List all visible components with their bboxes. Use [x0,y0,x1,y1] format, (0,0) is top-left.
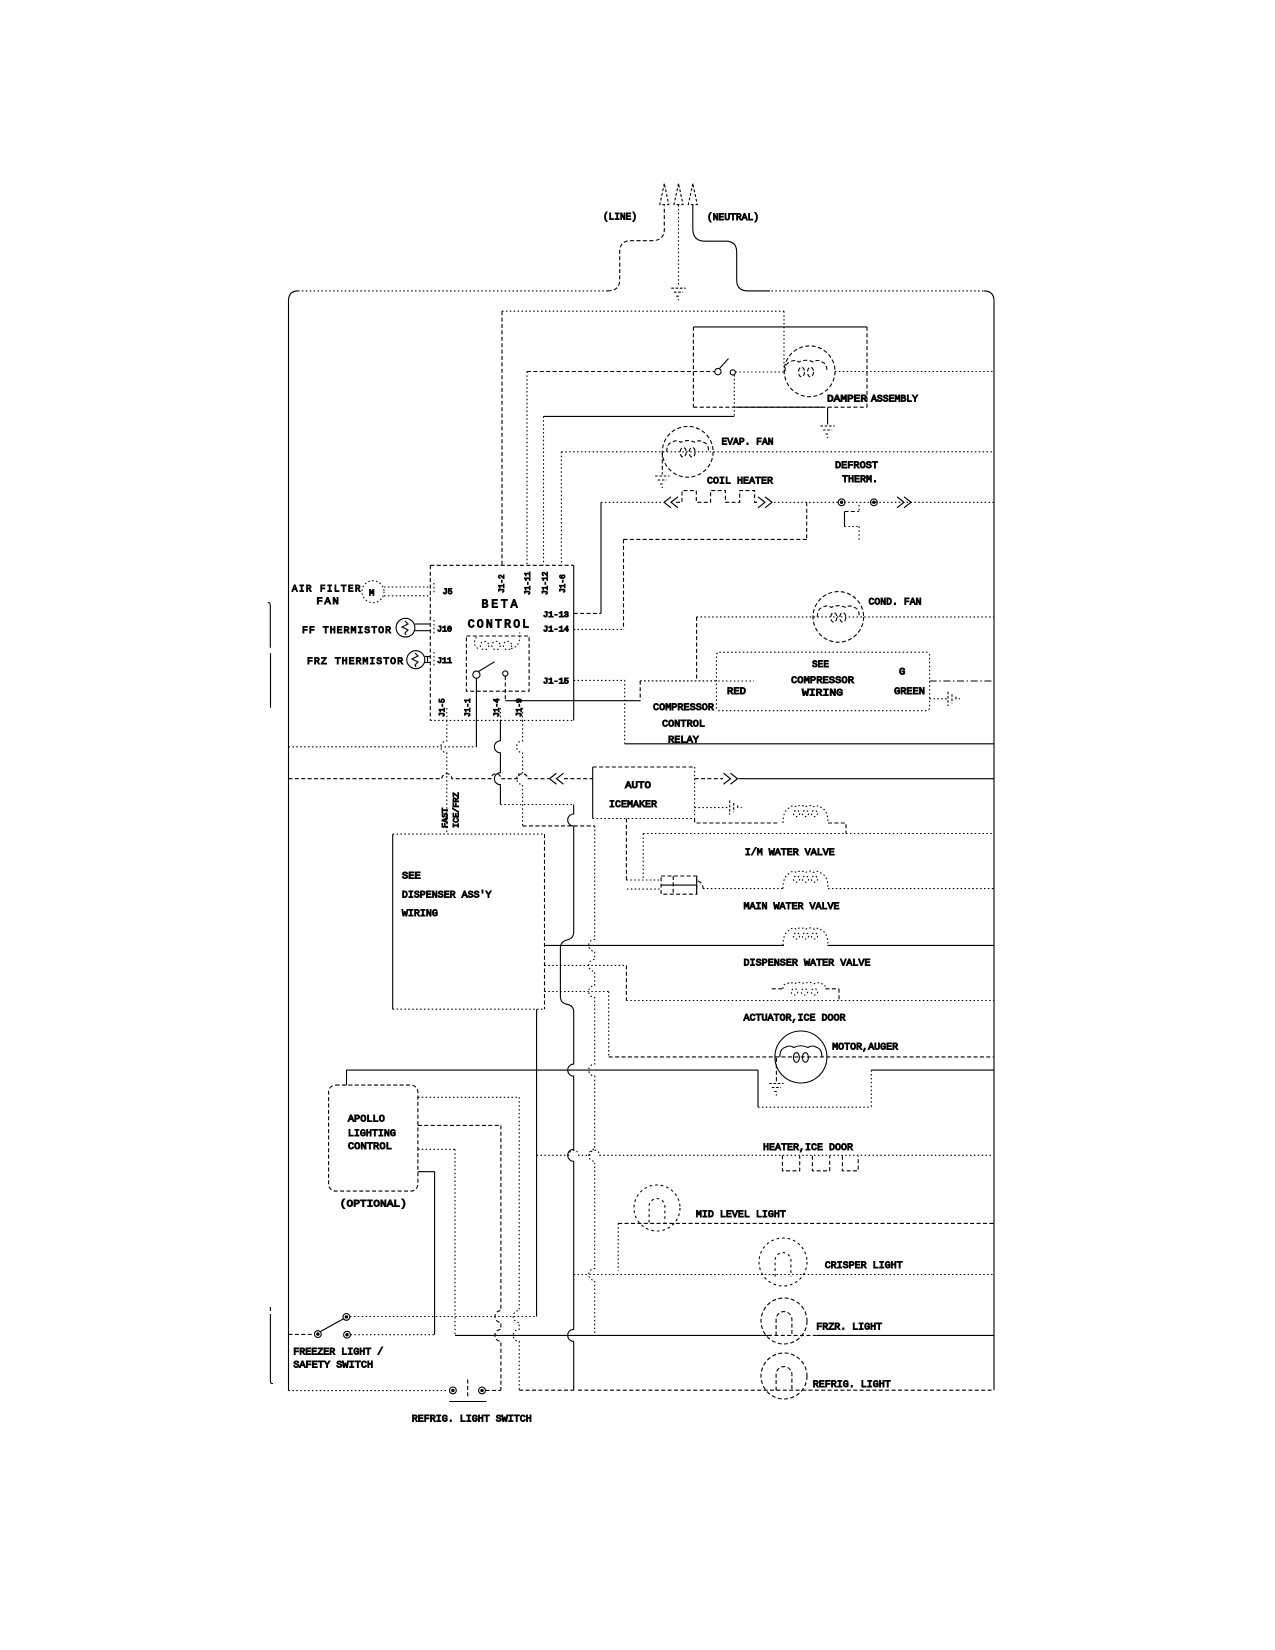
I/M water valve coil [783,806,828,824]
damper assembly box [693,326,867,328]
wire evap fan ground lead [661,453,663,475]
crisper light [759,1238,807,1286]
svg-text:WIRING: WIRING [402,908,438,920]
wire coil heater to defrost therm [774,501,994,503]
wire heater return [624,538,807,540]
svg-text:SAFETY SWITCH: SAFETY SWITCH [293,1360,373,1372]
svg-text:J10: J10 [437,627,452,635]
svg-text:FAN: FAN [316,596,340,608]
wire icemaker line to right border [739,778,995,780]
wire frzr light line [455,1334,768,1336]
svg-text:COMPRESSOR: COMPRESSOR [791,675,855,687]
wire down to damper coil [783,311,785,370]
wire freezer light switch upper line [350,1316,537,1318]
svg-text:J1-6: J1-6 [560,574,568,593]
air filter fan motor [362,581,384,603]
damper motor coil circle [784,346,835,397]
svg-text:CONTROL: CONTROL [468,619,532,632]
main water valve coil [783,871,828,889]
ground symbol (top) [671,287,685,289]
wire main valve to border [828,888,994,890]
svg-text:AIR FILTER: AIR FILTER [292,583,362,595]
dispenser assembly box [393,833,545,835]
compressor control relay box (partial) [640,680,716,682]
wire FRZ thermistor to J11 [425,656,430,658]
wire cond fan line [697,616,994,618]
svg-text:LIGHTING: LIGHTING [348,1128,396,1140]
svg-text:(LINE): (LINE) [603,212,637,224]
wire compressor feed [625,743,994,745]
wire apollo drop [346,1070,348,1085]
freezer light safety switch [289,1333,315,1335]
svg-text:SEE: SEE [812,659,829,671]
wire J1-13 riser [600,502,602,613]
wire GREEN lead [930,680,994,682]
svg-text:AUTO: AUTO [625,780,651,792]
svg-text:SEE: SEE [402,870,421,882]
wire J1-2 vertical [501,311,503,565]
svg-text:ASSEMBLY: ASSEMBLY [871,394,919,406]
evap fan coil winding [667,441,709,452]
wire J1-12 vertical [543,416,545,565]
wire actuator return line [626,1000,994,1002]
wire icemaker to connector (left) [625,819,627,881]
svg-text:MOTOR,AUGER: MOTOR,AUGER [832,1041,899,1053]
wire damper switch contact to J1-12 [733,375,735,416]
svg-text:RELAY: RELAY [668,735,700,747]
wire cond fan feed down [696,617,698,681]
ground symbol (compressor) [947,692,949,706]
wire J1-9 bus down [589,826,595,1334]
svg-text:I/M WATER VALVE: I/M WATER VALVE [745,847,835,859]
svg-text:APOLLO: APOLLO [348,1114,385,1126]
svg-text:FREEZER LIGHT /: FREEZER LIGHT / [293,1346,383,1358]
wire motor auger line [609,1056,994,1058]
margin mark upper [268,603,270,648]
wire J1-15 lead [574,680,625,743]
svg-text:J1-12: J1-12 [543,571,551,595]
defrost thermostat bypass [858,505,860,512]
damper coil winding [785,360,827,371]
svg-text:EVAP. FAN: EVAP. FAN [722,437,774,449]
svg-text:J1-11: J1-11 [525,571,533,595]
svg-text:HEATER,ICE DOOR: HEATER,ICE DOOR [763,1142,854,1154]
wire lighting line right of motor [871,1069,994,1071]
outer boundary wire (top-right corner) [984,291,994,301]
wire apollo line 4 [418,1171,435,1173]
wire J1-4 vertical [494,720,500,804]
wire I/M return to border [643,833,994,835]
svg-text:FF THERMISTOR: FF THERMISTOR [302,625,392,637]
svg-text:GREEN: GREEN [894,686,925,698]
svg-text:ICEMAKER: ICEMAKER [609,799,658,811]
ground symbol (damper) [820,425,834,427]
compressor wiring box [716,652,929,711]
svg-text:ACTUATOR,ICE DOOR: ACTUATOR,ICE DOOR [744,1013,847,1025]
outer boundary wire (top-left corner) [289,291,299,301]
center bus from J1-4 down [560,805,573,1391]
svg-text:J1-4: J1-4 [494,698,502,717]
damper switch [715,368,721,374]
arrowhead (LINE) [660,184,669,205]
relay coil [474,637,480,649]
svg-text:J1-13: J1-13 [543,612,569,620]
wire dispenser valve line [545,944,785,946]
ground symbol (evap fan) [655,475,669,477]
FF thermistor [396,618,415,637]
motor auger coil winding [780,1046,822,1057]
svg-text:J5: J5 [443,589,453,597]
refrig light [761,1353,807,1399]
svg-text:J1-15: J1-15 [543,679,569,687]
wire J1-9 elbow [523,825,595,827]
wire icemaker ground stub [695,807,728,809]
svg-text:CRISPER LIGHT: CRISPER LIGHT [825,1260,903,1272]
wire icemaker out [695,778,723,780]
wire J1-14 stub [574,628,624,630]
svg-text:CONTROL: CONTROL [662,719,705,731]
wire I/M valve feed [695,819,778,824]
apollo lighting control box [329,1085,418,1191]
arrow chevrons defrost line [897,497,904,508]
wire RED lead [640,680,754,682]
svg-text:COND. FAN: COND. FAN [869,597,922,609]
power neutral wire [693,205,770,291]
actuator ice door coil [772,988,783,990]
svg-text:BETA: BETA [482,599,521,612]
auto icemaker box [593,766,695,768]
svg-text:RED: RED [727,686,746,698]
wire motor auger ground lead [775,1058,777,1082]
wire heater return riser [806,502,808,539]
pin ticks BETA bottom [446,708,448,720]
FRZ thermistor [407,651,425,669]
wire J1-4 elbow to center bus [500,804,573,806]
wire J1-11 vertical [526,372,528,566]
evap fan circle [662,426,713,477]
wire J1-5 vertical [441,720,447,834]
wire apollo line 2 [418,1124,501,1126]
wire air filter fan to J5 [384,586,430,588]
wire J1-13 stub [574,612,601,614]
svg-text:CONTROL: CONTROL [348,1141,392,1153]
svg-text:COMPRESSOR: COMPRESSOR [653,702,715,714]
wire J1-6 to evap fan [561,451,994,453]
svg-text:FRZ THERMISTOR: FRZ THERMISTOR [307,656,404,668]
wire connector to main valve coil [703,888,783,890]
svg-text:REFRIG. LIGHT: REFRIG. LIGHT [813,1379,891,1391]
wire lighting to apollo and heater [347,1069,759,1071]
outer boundary wire (top edge) [298,290,608,292]
wire heater ice door line [537,1150,994,1155]
wire into icemaker [564,778,593,780]
arrow chevrons right of coil heater [758,497,765,508]
wire motor detour [757,1070,759,1107]
wire J1-4 output to compressor relay [505,700,640,702]
refrig light switch [450,1387,457,1394]
motor auger circle [775,1031,827,1083]
pin ticks BETA left [433,583,435,594]
coil heater element [676,491,759,503]
svg-text:M: M [369,589,374,599]
svg-text:G: G [899,667,905,679]
wire J1-9 vertical [517,720,523,826]
wire mid level light line [618,1222,994,1224]
heater ice door element [782,1155,858,1171]
wire apollo line 3 [418,1148,455,1150]
svg-text:FAST: FAST [441,808,451,828]
svg-text:WIRING: WIRING [802,688,843,700]
defrost thermostat contact left [838,499,845,506]
inline connector (main water valve) [661,876,697,894]
wire icemaker feed from left rail [289,774,549,779]
svg-text:(OPTIONAL): (OPTIONAL) [340,1198,407,1210]
svg-text:FRZR. LIGHT: FRZR. LIGHT [816,1322,882,1334]
svg-text:J1-14: J1-14 [543,627,569,635]
svg-text:DISPENSER WATER VALVE: DISPENSER WATER VALVE [744,958,871,970]
arrow chevrons icemaker right [724,773,731,784]
frzr light [761,1298,807,1344]
power line (LINE) wire [608,206,665,291]
ground symbol (motor auger) [769,1083,783,1085]
outer boundary wire (right edge) [993,301,995,1390]
wire FF thermistor to J10 [415,623,430,625]
wire actuator feed [545,964,627,966]
svg-text:MAIN WATER VALVE: MAIN WATER VALVE [744,901,840,913]
svg-text:(NEUTRAL): (NEUTRAL) [707,212,759,224]
wire apollo line 1 [418,1096,519,1098]
wire J1-11 to damper switch [527,371,715,373]
svg-text:DAMPER: DAMPER [827,394,868,406]
ground symbol (icemaker) [729,800,731,814]
wire damper ground lead [827,407,829,424]
wire relay common to left rail [289,746,477,748]
wire damper switch to coil [736,371,785,373]
wire freezer switch lower to apollo line4 [351,1334,435,1336]
wire connector bottom lead [627,888,661,890]
svg-text:J11: J11 [437,658,452,666]
wire relay common J1-1 [475,678,477,747]
arrow chevrons left of coil heater [671,497,678,508]
wire J1-2 to damper assembly [502,310,784,312]
wire coil heater feed [601,501,663,503]
svg-text:J1-5: J1-5 [440,698,448,717]
svg-text:REFRIG. LIGHT SWITCH: REFRIG. LIGHT SWITCH [412,1413,532,1425]
svg-text:J1-1: J1-1 [465,698,473,717]
wire bottom left rail [289,1390,447,1392]
svg-text:J1-2: J1-2 [499,574,507,593]
margin mark lower [269,1307,271,1311]
arrowhead (ground) [674,184,683,205]
outer boundary wire (left edge) [288,301,290,1391]
svg-text:DISPENSER ASS'Y: DISPENSER ASS'Y [402,890,492,902]
svg-text:ICE/FRZ: ICE/FRZ [452,792,462,828]
wire compressor ground stub [930,698,948,700]
cond fan circle [813,592,864,643]
cond fan coil winding [817,606,859,617]
arrowhead (NEUTRAL) [688,184,697,205]
wire relay contact to J1-4 output [504,676,506,701]
wire lighting main from dispenser [536,1009,538,1316]
wire return drop [642,834,644,881]
svg-text:THERM.: THERM. [842,474,878,486]
wire J1-6 vertical [560,452,562,566]
wire crisper light line [574,1274,994,1276]
BETA control box [430,564,573,566]
relay switch [473,671,480,678]
wire damper coil to right border [835,371,994,373]
svg-text:COIL HEATER: COIL HEATER [707,475,774,487]
arrow chevrons icemaker left [557,773,564,784]
relay box inside BETA control [466,636,529,691]
defrost thermostat contact right [871,499,878,506]
wire refrig light line [578,1389,994,1391]
svg-text:MID LEVEL LIGHT: MID LEVEL LIGHT [696,1209,786,1221]
mid level light [634,1185,680,1231]
dispenser water valve coil [783,928,828,946]
wire I/M valve out [828,823,846,834]
svg-text:DEFROST: DEFROST [835,460,878,472]
wire J1-14 riser [623,539,625,629]
wire motor auger feed [545,991,609,993]
earth ground wire (top) [678,205,680,287]
